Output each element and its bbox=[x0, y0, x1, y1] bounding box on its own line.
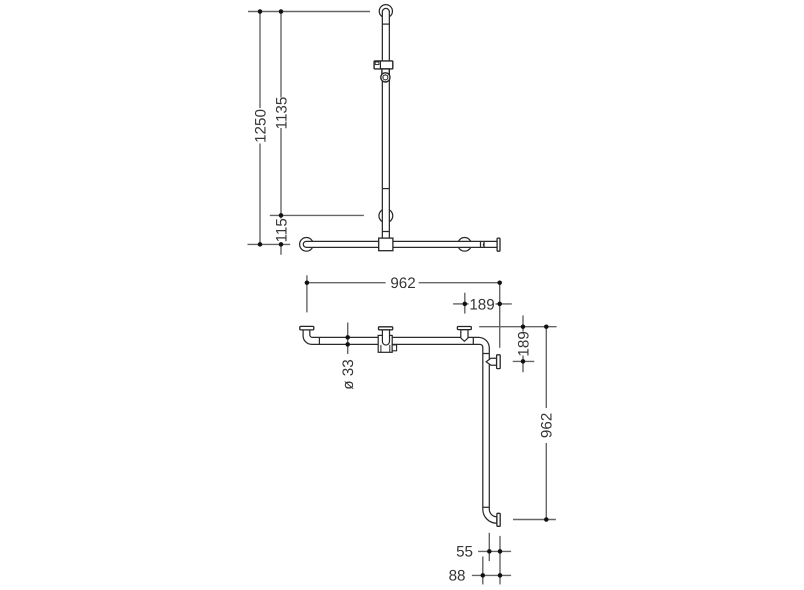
slider clamp neck bbox=[382, 69, 389, 75]
bar left wall ring bbox=[300, 238, 314, 252]
L-shaped tube bbox=[303, 330, 497, 523]
wire dimension line 1250 vertical bbox=[259, 12, 261, 109]
vertical shower rail tube bbox=[382, 8, 389, 238]
wire tick 189 right bottom bbox=[513, 360, 535, 362]
horizontal bar tube bbox=[303, 241, 497, 247]
bar tick 2 near right end bbox=[483, 241, 485, 247]
tube tick below corner bbox=[483, 353, 490, 355]
mid connector housing bbox=[378, 335, 392, 352]
node dia33 dot top bbox=[345, 335, 350, 340]
side support plate bbox=[497, 355, 501, 369]
wire ext 55 left bbox=[488, 533, 490, 561]
node dia33 dot bottom bbox=[345, 342, 350, 347]
side support neck bbox=[486, 358, 496, 365]
tube tick left bbox=[318, 337, 320, 344]
svg-text:88: 88 bbox=[449, 568, 466, 585]
svg-text:962: 962 bbox=[539, 413, 556, 438]
third support neck bbox=[461, 330, 468, 342]
wire dim 88 bbox=[472, 574, 511, 576]
rail joint tick top bbox=[382, 23, 389, 25]
svg-text:ø 33: ø 33 bbox=[340, 359, 357, 389]
mid connector step right bbox=[392, 345, 396, 351]
top cap ring bbox=[379, 5, 392, 18]
wire tick left 962 bbox=[306, 275, 308, 312]
tube tick before corner bbox=[472, 337, 474, 344]
slider holder ring outer bbox=[381, 73, 390, 82]
third support plate bbox=[457, 327, 471, 330]
tube tick above bottom elbow bbox=[483, 506, 490, 508]
mid connector U stem bbox=[382, 330, 389, 345]
svg-text:189: 189 bbox=[469, 296, 494, 313]
wire ext flange face bottom bbox=[499, 536, 501, 585]
mid connector inner right bbox=[389, 345, 391, 352]
wire dim 189 top bbox=[453, 303, 468, 305]
wire ext 88 left bbox=[482, 556, 484, 584]
svg-text:189: 189 bbox=[515, 331, 532, 356]
mid connector inner left bbox=[380, 345, 382, 352]
svg-text:55: 55 bbox=[456, 544, 473, 561]
node dim dots fig1 bbox=[258, 9, 263, 14]
slider body divider bbox=[379, 61, 381, 69]
wire dimension line 1135/115 vertical bbox=[280, 12, 282, 98]
wire extension bottom right bbox=[513, 519, 556, 521]
bottom wall flange plate bbox=[497, 513, 500, 526]
wire dim 962 top bbox=[307, 282, 386, 284]
svg-text:962: 962 bbox=[390, 275, 415, 292]
wire extension line top bbox=[248, 11, 370, 13]
bar snap arc detail bbox=[483, 243, 484, 247]
right wall flange plate fig1 bbox=[497, 238, 500, 251]
svg-text:1135: 1135 bbox=[273, 97, 290, 130]
center square connector bbox=[379, 238, 393, 251]
svg-text:1250: 1250 bbox=[252, 109, 269, 143]
bar tick near right end bbox=[480, 241, 482, 247]
wire extension line mid 115 bbox=[270, 214, 364, 216]
rail lower support ring bbox=[379, 209, 393, 223]
left flange plate bbox=[300, 326, 314, 330]
rail joint tick lower bbox=[382, 231, 389, 233]
wire extension line bottom bar axis bbox=[248, 243, 291, 245]
wire dim 962 right vertical bbox=[545, 327, 547, 408]
slider left detail bbox=[375, 62, 379, 65]
wire tick 189 left bbox=[464, 293, 466, 314]
wire dim 55 bbox=[478, 550, 511, 552]
bar right support ring bbox=[458, 238, 472, 252]
wire extension right mid bbox=[479, 326, 556, 328]
slider holder ring inner bbox=[383, 75, 388, 80]
slider body bbox=[374, 61, 393, 69]
wire vertical at right flange face bbox=[499, 283, 501, 348]
svg-text:115: 115 bbox=[273, 218, 290, 242]
wire dia33 vertical over tube bbox=[347, 323, 349, 355]
wire dim 189 right vertical bbox=[522, 315, 524, 331]
rail joint tick mid bbox=[382, 188, 389, 190]
node dim dots fig2 bbox=[305, 280, 310, 285]
mid connector plate bbox=[379, 327, 393, 330]
